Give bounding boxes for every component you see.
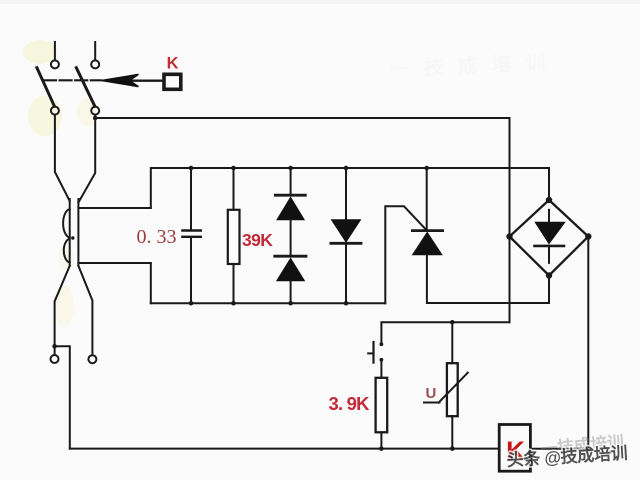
junction res top xyxy=(231,166,236,171)
bridge plus lead to top rail xyxy=(548,168,550,200)
resistor R2 3.9K body xyxy=(376,378,388,433)
bridge inner diode bar xyxy=(535,245,565,248)
yellow highlight blob coil left xyxy=(58,246,74,270)
relay coil K box xyxy=(499,425,530,472)
svg-text:39K: 39K xyxy=(242,230,273,250)
contactor actuator box K xyxy=(164,74,181,89)
resistor R1 39K body xyxy=(228,210,240,264)
bridge left vertex dot xyxy=(506,233,512,239)
capacitor C bottom lead xyxy=(190,238,192,303)
varistor RV diagonal foot xyxy=(424,402,440,404)
arrow shaft to K actuator box xyxy=(129,79,163,81)
junction RV bottom xyxy=(450,446,455,451)
yellow highlight blob below right switch xyxy=(77,98,99,126)
yellow highlight blob below left switch xyxy=(28,96,62,136)
transformer secondary top stub xyxy=(78,207,150,209)
yellow highlight blob top-left xyxy=(23,40,57,64)
thyristor V top lead xyxy=(426,168,428,230)
wire transformer bottom-left lead xyxy=(55,266,70,355)
switch S left pole top lead xyxy=(54,42,56,60)
capacitor C plate top xyxy=(182,229,200,231)
junction D3 bottom xyxy=(344,301,349,306)
junction at right pole bottom xyxy=(93,116,98,121)
push button SB actuator tick xyxy=(368,352,373,354)
yellow highlight blob transformer bottom xyxy=(54,285,74,327)
thyristor V cathode bar xyxy=(412,229,442,232)
svg-text:3. 9K: 3. 9K xyxy=(329,393,371,414)
wire button to resistor 3.9K xyxy=(380,361,382,378)
diode D3 cathode bar xyxy=(331,242,361,245)
thyristor V triangle xyxy=(413,232,442,254)
top rail with left edge xyxy=(151,168,549,208)
junction thyristor top xyxy=(424,166,429,171)
switch S right pole bottom contact xyxy=(91,107,99,115)
terminal circle bottom-left xyxy=(51,355,59,363)
junction cap top xyxy=(189,166,194,171)
junction res bottom xyxy=(231,301,236,306)
bridge top vertex dot xyxy=(546,197,552,203)
bottom rail right of coil xyxy=(530,448,588,450)
varistor RV top lead xyxy=(451,322,453,363)
transformer T winding left conductor xyxy=(69,199,71,266)
diode D1 cathode bar xyxy=(275,194,305,197)
bridge right vertex dot xyxy=(585,233,591,239)
junction D3 top xyxy=(344,166,349,171)
diode D3 bottom lead xyxy=(345,242,347,303)
switch S right pole blade xyxy=(76,68,95,107)
resistor R1 39K bottom lead xyxy=(233,264,235,303)
switch S left pole top contact xyxy=(51,60,59,68)
bottom rail left segment xyxy=(151,302,385,304)
bridge rectifier VC diamond xyxy=(510,200,589,276)
wire right pole to bridge AC left (long top wire) xyxy=(95,118,509,322)
arrow head xyxy=(102,74,139,86)
switch mechanical link dashed xyxy=(44,79,101,81)
switch S right pole top contact xyxy=(91,60,99,68)
junction D2 bottom xyxy=(288,301,293,306)
bridge inner diode triangle xyxy=(535,222,565,243)
bridge inner cathode lead xyxy=(548,246,550,263)
junction D1 top xyxy=(288,166,293,171)
capacitor C 0.33 top lead xyxy=(190,168,192,230)
switch S left pole blade xyxy=(37,68,55,107)
capacitor C plate bottom xyxy=(182,236,200,238)
diode D3 top lead xyxy=(345,168,347,220)
junction varistor top xyxy=(450,320,455,325)
resistor R2 3.9K bottom lead xyxy=(380,432,382,448)
varistor RV bottom lead xyxy=(451,416,453,448)
varistor RV diagonal stroke xyxy=(439,373,468,403)
bridge inner anode lead xyxy=(548,210,550,223)
switch S left pole bottom contact xyxy=(51,107,59,115)
thyristor gate wire xyxy=(385,206,427,303)
varistor RV body xyxy=(447,363,458,416)
transformer secondary bottom stub xyxy=(78,262,150,264)
diode D3 triangle xyxy=(332,220,361,242)
svg-text:0. 33: 0. 33 xyxy=(137,226,177,248)
push button SB actuator bar xyxy=(372,342,374,363)
transformer coil arc lower xyxy=(64,239,70,263)
junction on bottom-left lead xyxy=(52,344,57,349)
junction cap bottom xyxy=(189,301,194,306)
junction R2 bottom xyxy=(379,446,384,451)
svg-text:K: K xyxy=(167,55,179,73)
diode D2 cathode bar xyxy=(275,255,306,258)
left edge bottom segment xyxy=(150,263,152,303)
wire transformer bottom-right lead xyxy=(78,266,92,355)
diode D2 bottom lead xyxy=(290,281,292,304)
diode D1-D2 link xyxy=(290,220,292,256)
diode D2 triangle xyxy=(277,258,305,280)
transformer T winding right conductor xyxy=(77,199,79,266)
transformer coil arc upper xyxy=(63,209,70,237)
push button SB top contact xyxy=(380,342,384,346)
resistor R1 39K top lead xyxy=(233,168,235,210)
wire from junction to bottom rail xyxy=(55,346,70,448)
push button SB bottom contact xyxy=(380,358,384,362)
diode D1 top lead xyxy=(290,168,292,195)
wire right pole down to transformer xyxy=(78,116,95,203)
control line from bridge left to button and varistor xyxy=(381,322,509,342)
switch S right pole top lead xyxy=(94,42,96,60)
bridge right AC lead down xyxy=(587,237,589,449)
diode D1 triangle xyxy=(277,197,304,220)
terminal circle bottom-right xyxy=(88,355,96,363)
bridge bottom vertex dot xyxy=(546,272,552,278)
bottom rail to relay coil xyxy=(70,448,499,450)
transformer coil tap dot xyxy=(71,236,74,239)
thyristor V cathode lead to bridge minus xyxy=(427,255,549,303)
svg-text:U: U xyxy=(426,385,437,402)
wire left pole down to transformer xyxy=(55,116,70,201)
